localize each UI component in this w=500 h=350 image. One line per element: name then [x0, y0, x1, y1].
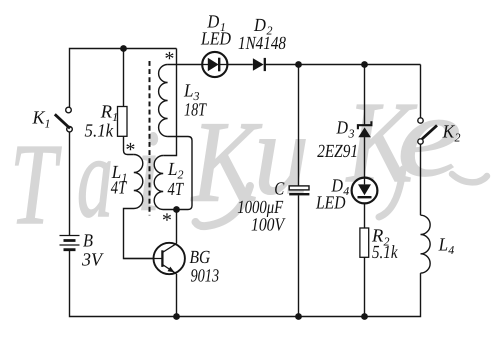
- svg-text:*: *: [161, 210, 171, 232]
- svg-text:1: 1: [45, 117, 51, 131]
- svg-text:D: D: [253, 16, 266, 36]
- svg-text:1N4148: 1N4148: [238, 34, 287, 54]
- svg-text:*: *: [164, 48, 174, 70]
- svg-text:D: D: [336, 119, 349, 139]
- svg-text:R: R: [100, 102, 112, 122]
- svg-text:2EZ91: 2EZ91: [317, 142, 358, 162]
- svg-text:LED: LED: [315, 193, 346, 213]
- svg-text:B: B: [83, 232, 93, 252]
- svg-text:C: C: [274, 179, 285, 199]
- svg-text:2: 2: [455, 131, 461, 145]
- svg-text:3V: 3V: [81, 251, 105, 271]
- svg-text:4T: 4T: [168, 180, 185, 200]
- svg-text:LED: LED: [200, 30, 231, 50]
- svg-text:5.1k: 5.1k: [85, 122, 114, 142]
- svg-text:100V: 100V: [251, 216, 286, 236]
- svg-text:18T: 18T: [184, 100, 207, 120]
- svg-text:4T: 4T: [111, 179, 128, 199]
- svg-text:*: *: [125, 139, 135, 161]
- svg-text:L: L: [183, 82, 193, 102]
- svg-text:T: T: [10, 121, 62, 249]
- svg-text:L: L: [438, 236, 448, 256]
- svg-text:4: 4: [448, 243, 454, 257]
- svg-text:L: L: [167, 160, 177, 180]
- svg-text:3: 3: [348, 126, 355, 140]
- svg-text:5.1k: 5.1k: [372, 243, 398, 263]
- svg-text:9013: 9013: [191, 267, 220, 287]
- svg-text:BG: BG: [190, 248, 211, 268]
